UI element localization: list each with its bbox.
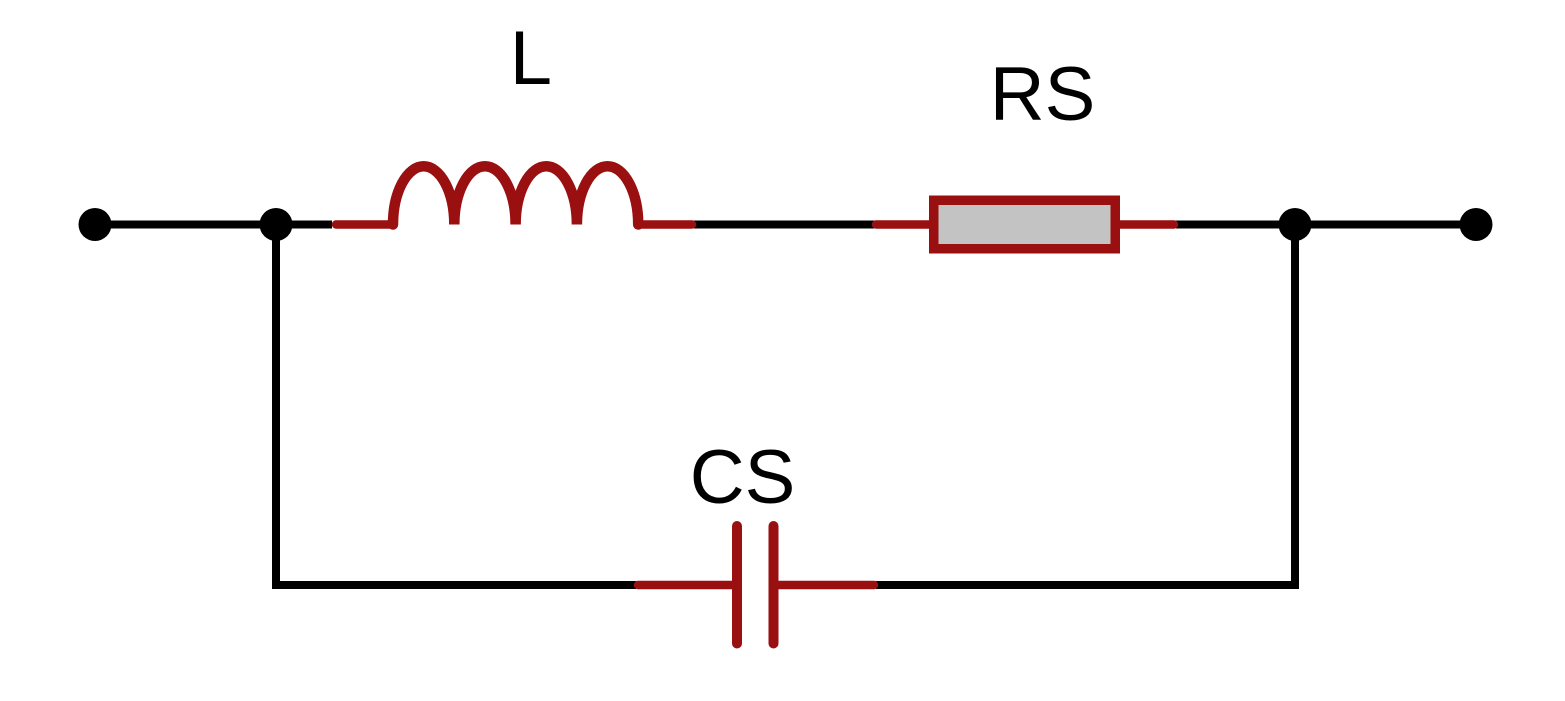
- inductor L lead right (red): [638, 220, 692, 229]
- wire: left vertical branch and bottom-left segment: [276, 225, 636, 586]
- svg-text:RS: RS: [990, 52, 1096, 137]
- capacitor CS lead left (red): [638, 581, 732, 590]
- label RS: [990, 52, 1096, 137]
- node: right terminal dot: [1460, 208, 1493, 241]
- inductor L lead left (red): [336, 220, 392, 229]
- wire: top rail middle segment (inductor to resistor): [694, 221, 874, 229]
- wire: right vertical branch and bottom-right segment: [876, 225, 1295, 586]
- capacitor CS left plate: [732, 526, 742, 644]
- capacitor CS lead right (red): [779, 581, 875, 590]
- resistor RS body: [934, 200, 1116, 249]
- svg-text:L: L: [510, 16, 552, 101]
- node: left junction dot: [260, 208, 293, 241]
- wire: top rail right segment (resistor to right terminal): [1176, 221, 1476, 229]
- label L: [510, 16, 552, 101]
- resistor RS lead left (red): [876, 220, 930, 229]
- inductor L coil: [393, 166, 638, 224]
- wire: top rail left segment (terminal to node): [95, 221, 332, 229]
- capacitor CS right plate: [769, 526, 779, 644]
- label CS: [690, 435, 796, 520]
- node: left terminal dot: [79, 208, 112, 241]
- node: right junction dot: [1279, 208, 1312, 241]
- resistor RS lead right (red): [1120, 220, 1175, 229]
- svg-text:CS: CS: [690, 435, 796, 520]
